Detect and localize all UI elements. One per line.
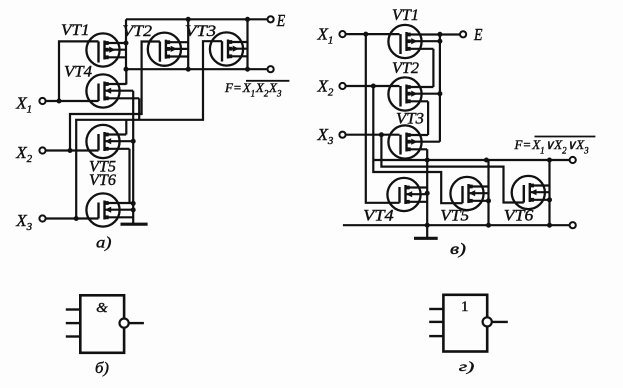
svg-text:VT4: VT4 — [363, 208, 394, 225]
transistor VT1 — [86, 33, 126, 66]
terminal X2 input terminal (left) — [39, 147, 45, 153]
wire VT3 source to output and ground stem — [426, 149, 428, 237]
wire X1 input wire — [46, 100, 99, 102]
junction node out-VT2 — [186, 67, 191, 72]
terminal F terminal (right) — [570, 157, 576, 163]
junction X3 junction (right) — [379, 132, 384, 137]
wire gate g input 2 — [429, 321, 443, 323]
svg-text:&: & — [96, 301, 108, 316]
wire VT5 vertical (right) — [487, 160, 489, 225]
logic gate symbol b): NAND — [80, 295, 124, 353]
junction node F-VT3 — [425, 158, 430, 163]
wire X1 riser to VT4 gate — [366, 34, 400, 203]
terminal E terminal (right) — [460, 31, 466, 37]
terminal X1 input terminal (right) — [339, 31, 345, 37]
svg-text:VT1: VT1 — [61, 22, 90, 39]
wire X2 riser to VT5 gate — [373, 86, 462, 203]
transistor VT4 (right) — [387, 178, 427, 211]
transistor VT1 (right) — [388, 25, 460, 58]
wire overline (right F) — [535, 136, 596, 138]
wire X2 input wire — [46, 149, 99, 151]
junction node VT6 substrate — [131, 207, 136, 212]
terminal F terminal (left) — [268, 66, 274, 72]
transistor VT6 — [86, 193, 133, 226]
transistor VT2 (right) — [388, 77, 440, 110]
wire F bus (right) — [373, 159, 570, 161]
wire X3 wire (right) — [345, 134, 399, 136]
wire VT1 drain-source vertical bus — [125, 19, 127, 69]
wire VT5 drain riser — [125, 120, 127, 135]
transistor VT4 — [86, 74, 139, 107]
transistor VT5 (right) — [450, 177, 488, 210]
wire output to VT4 drain — [125, 69, 127, 84]
junction X2 junction (right) — [371, 84, 376, 89]
svg-text:E: E — [276, 11, 285, 30]
transistor VT6 (right) — [512, 176, 550, 209]
svg-text:VT6: VT6 — [504, 208, 534, 225]
junction node bus-VT6 — [547, 223, 552, 228]
ground (right circuit) — [414, 237, 438, 240]
junction node E-VT3 — [245, 17, 250, 22]
svg-text:VT2: VT2 — [392, 60, 419, 77]
wire overline (left F) — [246, 80, 289, 82]
transistor VT2 — [148, 33, 188, 66]
logic gate symbol g): NOR — [443, 295, 487, 352]
wire X1 wire (right) — [345, 33, 399, 35]
junction node output-left — [124, 67, 129, 72]
wire VT4 substrate chain to ground — [132, 91, 134, 225]
wire output bus F (left) — [126, 68, 268, 70]
wire VT2-VT3 series link — [427, 101, 429, 135]
terminal source bus terminal — [570, 222, 576, 228]
ground (left circuit) — [121, 223, 148, 226]
wire X1 riser to VT1 gate — [59, 41, 99, 101]
transistor VT5 — [86, 125, 133, 158]
svg-text:VT3: VT3 — [185, 23, 216, 40]
wire VT5 source to VT6 drain — [128, 149, 130, 204]
wire gate b input 3 — [66, 335, 81, 337]
wire E bus top (left circuit) — [126, 18, 268, 20]
svg-text:VT6: VT6 — [89, 172, 116, 189]
svg-text:E: E — [473, 25, 482, 44]
wire X3 input wire — [46, 217, 99, 219]
junction node bus-VT5 — [486, 223, 491, 228]
junction node VT1 drain — [124, 41, 129, 46]
terminal X1 input terminal (left) — [39, 98, 45, 104]
terminal X3 input terminal (left) — [39, 215, 45, 221]
junction X3 junction — [74, 216, 79, 221]
junction node VT1 substrate (right) — [437, 39, 442, 44]
wire VT4 source drop — [138, 98, 140, 120]
junction node VT6 source (right) — [547, 197, 552, 202]
junction X1 junction (right) — [363, 32, 368, 37]
wire X3 riser to VT6 gate — [381, 135, 523, 203]
wire gate b input 2 — [66, 322, 81, 324]
svg-text:VT2: VT2 — [122, 23, 152, 40]
junction X2 junction — [68, 148, 73, 153]
junction node VT6 drain — [131, 201, 136, 206]
inversion bubble g) — [483, 317, 492, 326]
wire X2 wire (right) — [345, 85, 399, 87]
inversion bubble b) — [120, 319, 129, 328]
wire bottom source bus — [343, 224, 570, 226]
wire gate g input 3 — [429, 335, 443, 337]
svg-text:VT3: VT3 — [396, 111, 424, 128]
wire X3 path to VT3 gate — [76, 41, 222, 218]
wire VT1-VT2 series link — [432, 49, 434, 87]
svg-text:VT4: VT4 — [64, 64, 92, 81]
svg-text:б): б) — [95, 360, 109, 377]
junction node VT2 substrate (right) — [437, 91, 442, 96]
terminal E terminal (left) — [268, 16, 274, 22]
svg-text:VT1: VT1 — [392, 7, 419, 24]
terminal X3 input terminal (right) — [339, 132, 345, 138]
svg-text:в): в) — [450, 241, 466, 258]
wire VT6 vertical (right) — [548, 160, 550, 225]
svg-text:г): г) — [459, 360, 475, 375]
wire substrate rail vertical — [439, 34, 441, 141]
junction node VT5 substrate — [131, 139, 136, 144]
wire X2 path to VT2 gate — [70, 42, 160, 151]
transistor VT3 (right) — [388, 125, 440, 158]
junction node E-VT2 — [186, 17, 191, 22]
junction X1 junction — [57, 99, 62, 104]
svg-text:VT5: VT5 — [440, 208, 469, 225]
junction node out-VT3 — [245, 67, 250, 72]
wire VT3 vertical bus — [246, 19, 248, 69]
transistor VT3 — [210, 32, 248, 65]
wire VT2 vertical bus — [187, 19, 189, 69]
wire gate g output line — [492, 321, 508, 323]
wire gate g input 1 — [429, 308, 443, 310]
wire gate b input 1 — [66, 308, 81, 310]
junction node VT4 substrate (right) — [425, 191, 430, 196]
terminal X2 input terminal (right) — [339, 83, 345, 89]
junction node E rail — [437, 32, 442, 37]
junction node VT5 source (right) — [486, 198, 491, 203]
wire gate b output line — [129, 322, 144, 324]
svg-text:а): а) — [96, 235, 112, 252]
junction node F-VT5 — [484, 158, 489, 163]
svg-text:1: 1 — [461, 299, 469, 315]
junction node F-VT6 — [547, 158, 552, 163]
junction node bus-VT4 — [425, 223, 430, 228]
